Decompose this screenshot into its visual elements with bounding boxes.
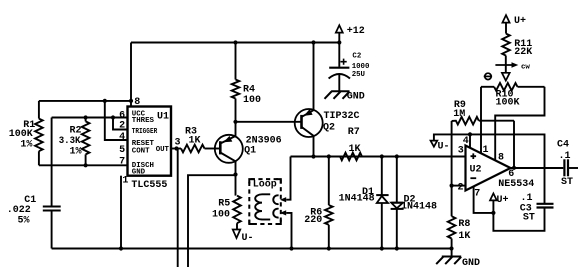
capacitor C4 [564,159,578,176]
wire loop bottom contact to rail [286,213,291,249]
svg-text:3: 3 [175,137,181,148]
label R11 [514,39,532,58]
svg-text:R4: R4 [243,85,255,96]
Q2 emitter wire to +12 rail [313,43,315,111]
wire pin 2 into op-amp [452,185,466,187]
svg-text:5: 5 [119,145,125,156]
junction dot at pin-8 vertical [129,99,133,103]
capacitor C1 [43,118,61,249]
svg-text:C2: C2 [352,52,361,60]
junction dot D2 bottom [395,246,399,250]
svg-text:U-: U- [438,142,450,153]
svg-text:1K: 1K [458,231,470,242]
label R7 [348,127,361,155]
label R6 [304,208,322,226]
junction dot R6 top [327,154,331,158]
resistor R1 [35,101,43,165]
junction dot pin 7 node [491,211,495,215]
label R5 [212,199,230,221]
svg-text:7: 7 [474,188,480,199]
resistor R8 [448,216,456,256]
U2 pin 7 wire [474,187,494,213]
svg-text:3: 3 [458,145,464,156]
wire R9 right to output [513,121,515,168]
svg-text:U+: U+ [497,195,509,206]
off-board line from Q1 collector [188,175,236,267]
junction dot pin 2 [450,184,454,188]
loop bottom arrow [280,210,286,215]
svg-text:NE5534: NE5534 [498,179,534,190]
junction dot TRIGGER branch [111,115,115,119]
label R1 [9,120,36,150]
svg-text:TLC555: TLC555 [131,180,167,191]
capacitor C3 [493,204,553,231]
label C1 [7,195,37,226]
svg-text:GND: GND [462,258,480,267]
wire V- to pin4 and C3 (y=134.4) [434,134,545,203]
pin 3 label [175,137,181,148]
resistor R3 [181,145,220,153]
svg-text:4: 4 [463,136,469,147]
Q2 emitter segment [302,110,314,117]
diode D2 [391,157,404,249]
label R8 [458,219,470,242]
power symbol V+ top [502,15,526,27]
svg-text:8: 8 [498,152,504,163]
wire op-amp output [511,167,564,169]
label GND at C2 [347,92,365,103]
junction dot D1 top [380,154,384,158]
svg-text:CONT: CONT [132,147,150,155]
junction dot pin 3 [174,146,178,150]
IC U1 box [128,107,172,176]
svg-text:.1: .1 [521,193,533,204]
U2 pin 4 label [463,136,469,147]
ground rail (y=248.5) [52,248,452,250]
label Loop [253,180,277,191]
junction dot R4 top [233,40,237,44]
junction dot R2 top [84,115,88,119]
svg-text:R5: R5 [218,199,230,210]
label R10 [496,90,520,109]
capacitor C2 polarized [329,43,350,92]
junction dot Q2 collector [311,154,315,158]
Loop dashed box [249,179,280,224]
label Q2 [323,111,360,133]
svg-text:1%: 1% [70,146,82,157]
label C4 [557,140,573,189]
svg-text:25U: 25U [352,71,365,79]
svg-text:4: 4 [119,132,125,143]
label D1 [339,187,375,205]
resistor R10 potentiometer [481,83,545,91]
junction dot +12/C2 [337,40,341,44]
svg-text:1N4148: 1N4148 [339,194,375,205]
svg-text:1: 1 [122,176,128,187]
Q2 base bar [300,115,303,129]
svg-text:7: 7 [119,156,125,167]
U2 pin 6 label [508,169,514,180]
svg-text:OUT: OUT [156,146,170,154]
Q1 emitter wire up [235,122,237,136]
svg-text:U-: U- [242,233,254,244]
junction dot D2 top [395,154,399,158]
U2 plus sign [471,153,477,159]
Loop box corner ticks [249,179,280,224]
off-board line from OUT (crosses rail) [177,149,179,267]
svg-text:+12: +12 [347,26,365,37]
op-amp U2 triangle [466,146,511,191]
resistor R9 [452,117,514,125]
resistor R2 [82,118,90,166]
R10 wiper arrow [502,56,510,81]
svg-text:220: 220 [304,215,322,226]
Q2 collector wire down [313,136,315,157]
label cw [521,64,530,72]
junction dot pin 4 [468,132,472,136]
U2 part number NE5534 [498,179,534,190]
svg-text:U1: U1 [157,111,169,122]
ground symbol at R8 [436,257,461,265]
U2 pin 7 label [474,188,480,199]
svg-text:100K: 100K [496,98,520,109]
svg-text:1M: 1M [453,109,465,120]
trimmer screw symbol [484,73,492,79]
label C3 [520,193,535,224]
junction dot D1 bottom [380,246,384,250]
resistor R5 [233,196,241,230]
svg-text:.1: .1 [559,151,571,162]
U2 pin 2 label [458,183,464,194]
svg-text:cw: cw [521,64,530,72]
wire Q1 emitter to Q2 base [236,121,302,123]
transistor Q2 circle [295,109,323,137]
svg-text:22K: 22K [514,47,532,58]
svg-text:5%: 5% [18,216,30,227]
svg-text:GND: GND [132,168,146,176]
transistor Q1 circle [215,135,243,163]
U1 part number TLC555 [131,180,167,191]
svg-text:ST: ST [561,177,573,188]
label R2 [59,126,82,158]
Q1 collector wire down [235,161,237,196]
power symbol +12 [336,25,365,42]
resistor R11 [502,23,510,56]
svg-text:R8: R8 [458,219,470,230]
svg-text:Q1: Q1 [244,146,256,157]
svg-text:Q2: Q2 [323,122,335,133]
svg-text:1N4148: 1N4148 [401,201,437,212]
label R4 [243,85,261,107]
U2 pin 3 label [458,145,464,156]
svg-text:100: 100 [212,209,230,220]
wire corner down to loop top contact [286,157,290,200]
diode D1 [376,157,388,249]
U2 pin 1 label [483,145,489,156]
power symbol V+ at pin 7 [490,193,509,213]
resistor R7 [340,153,362,161]
junction dot U1 GND [119,246,123,250]
svg-text:1000: 1000 [352,63,370,71]
U1 pin numbers [119,110,125,167]
junction dot R6 bottom [327,246,331,250]
svg-text:ST: ST [523,213,535,224]
label GND bottom right [462,258,480,267]
wire TRIGGER jog into pin 2 [113,118,128,130]
power symbol V- at op-amp [431,141,450,153]
loop jack contacts [273,195,278,217]
svg-text:TIP32C: TIP32C [324,111,360,122]
svg-text:U+: U+ [514,16,526,27]
U1 pin 3 OUT wire [171,148,181,150]
U1 internal labels [132,111,158,177]
U2 pin 8 label [498,152,504,163]
Q2 collector segment [302,127,314,136]
svg-text:6: 6 [508,169,514,180]
wire pin2 vertical (R9 left to R8) [451,121,453,216]
U2 pin 8 wire [495,87,544,161]
svg-text:1K: 1K [189,136,201,147]
resistor R4 [232,43,240,122]
loop plug symbol [255,194,270,219]
svg-text:8: 8 [134,97,140,108]
svg-text:R2: R2 [70,126,82,137]
Q1 emitter arrow [223,136,232,142]
wire THRES net (y=117.5) [52,117,128,119]
U1 pin 8 label [134,97,140,108]
wire VCC net: R1 top to pin-8 vertical (y=100.9) [39,100,131,102]
label D2 [401,195,437,213]
U2 pin 4 wire [469,134,471,147]
junction dot Q1 collector [233,172,237,176]
svg-text:2: 2 [119,121,125,132]
power symbol V- below R5 [233,230,254,245]
Q1 collector segment [220,153,235,162]
label R3 [185,126,201,146]
svg-text:C4: C4 [557,140,569,151]
svg-text:.022: .022 [7,205,31,216]
svg-text:1K: 1K [349,144,361,155]
svg-text:1%: 1% [20,139,32,150]
U2 pin 1 wire [480,87,482,154]
junction dot R8 at rail [449,246,453,250]
svg-text:U2: U2 [470,165,482,176]
junction dot Q2 emitter top [311,40,315,44]
label C2 [352,52,370,79]
U2 minus sign [470,177,476,179]
wire DISCH net (y=165.3) [39,164,128,166]
U1 pin 1 GND wire [120,176,122,249]
U1 pin 1 label [122,176,128,187]
Q2 emitter arrow [304,109,313,116]
junction dot R4 bottom / Q1-Q2 node [233,120,237,124]
svg-text:GND: GND [347,92,365,103]
top rail +12 (y=42.5) [131,42,339,44]
loop top arrow [280,197,286,202]
resistor R6 [325,157,333,249]
junction dot output [512,166,516,170]
junction dot RESET branch [103,99,107,103]
label R9 [453,100,466,120]
ground symbol at C2 [325,91,350,99]
svg-text:1: 1 [483,145,489,156]
label Q1 [244,136,282,157]
svg-text:Loop: Loop [253,180,277,191]
svg-text:R7: R7 [348,127,360,138]
svg-text:2: 2 [458,183,464,194]
cw arrow [495,62,518,67]
wire Q2 collector net [291,156,466,158]
U1 OUT label [156,146,170,154]
Q1 emitter segment [220,136,235,144]
U1 name [157,111,169,122]
Q1 base bar [219,141,222,154]
wire RESET branch down and into pin 4 [105,101,128,140]
svg-text:TRIGGER: TRIGGER [132,128,158,136]
U1 pin 8 wire (VCC) [130,43,132,107]
svg-text:THRES: THRES [132,117,155,125]
junction dot R2 bottom [84,163,88,167]
U2 name [470,165,482,176]
svg-text:100: 100 [243,95,261,106]
junction dot loop bottom [289,246,293,250]
